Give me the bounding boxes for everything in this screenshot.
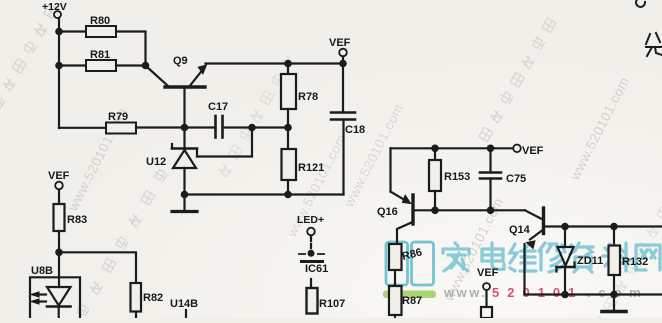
wire R80 left lead [59, 30, 86, 32]
node R132 bottom [610, 291, 618, 299]
svg-text:R81: R81 [90, 49, 110, 61]
glyph xiu [539, 243, 565, 272]
wire to R82 [59, 252, 136, 283]
partial glyph top-right 2 [646, 33, 662, 56]
svg-text:U8B: U8B [31, 265, 53, 277]
wire base row: rail corner to R79 [59, 127, 106, 129]
resistor R87 [389, 286, 422, 318]
svg-text:C18: C18 [345, 124, 365, 136]
zener diode U12 [146, 128, 197, 195]
node R78/R121/C17 [284, 124, 292, 132]
connector plate IC61 [302, 262, 329, 276]
node R80/R81 join [142, 62, 150, 70]
watermark www line left [65, 105, 130, 214]
node ZD11 bottom [561, 291, 569, 299]
logo url text [443, 285, 649, 300]
watermark www line center-low [284, 131, 349, 240]
watermark CJK line lower-left [74, 168, 167, 317]
VEF terminal right [513, 145, 543, 158]
optocoupler U8B [30, 265, 80, 318]
resistor R132 [609, 227, 649, 295]
wire bottom row to C18 [185, 193, 344, 195]
svg-text:R153: R153 [444, 171, 470, 183]
node R121 bottom [284, 191, 292, 199]
node C75 top [487, 145, 495, 153]
logo big CJK text [443, 243, 660, 272]
VEF terminal bottom-center [477, 267, 499, 307]
node U12 anode [181, 191, 189, 199]
wire R81 left lead [59, 64, 86, 66]
svg-text:U14B: U14B [170, 298, 198, 310]
svg-text:R107: R107 [319, 298, 345, 310]
svg-text:VEF: VEF [329, 37, 351, 49]
wire R81 right lead [116, 64, 146, 66]
node R153 top [431, 145, 439, 153]
resistor R80 [86, 26, 116, 37]
svg-text:520101: 520101 [492, 285, 583, 300]
zener diode ZD11 [557, 227, 604, 295]
svg-text:R132: R132 [622, 256, 648, 268]
wire emitter rail bottom right [525, 293, 662, 295]
watermark CJK line right-top [477, 17, 556, 142]
logo green underline bar [383, 291, 436, 299]
watermark CJK line bottom-right [591, 206, 662, 323]
svg-text:R79: R79 [108, 111, 128, 123]
svg-text:Q16: Q16 [377, 206, 398, 218]
partial glyph top-right 1 [636, 0, 645, 7]
glyph liao [603, 243, 630, 271]
ground right [602, 295, 626, 312]
svg-text:.com: .com [587, 285, 649, 300]
LED inside U8B [47, 252, 71, 318]
transistor Q16 [377, 192, 525, 244]
svg-text:R82: R82 [143, 292, 163, 304]
capacitor C18 [331, 64, 365, 195]
wire +12V rail vertical [58, 18, 60, 128]
resistor R107 [307, 279, 346, 314]
wire R79 to C17 [136, 126, 216, 128]
svg-text:C75: C75 [506, 173, 526, 185]
ground U12 [172, 195, 197, 212]
svg-text:VEF: VEF [522, 145, 544, 157]
wire zener bend feedback loop [197, 128, 252, 157]
glyph zi [570, 243, 593, 272]
wire R80 right lead down to R81 node [116, 32, 146, 66]
svg-text:R80: R80 [90, 15, 110, 27]
node VEF drop [339, 60, 347, 68]
svg-text:IC61: IC61 [305, 263, 328, 275]
node R78 top [284, 60, 292, 68]
wire Q16 emitter riser [389, 148, 391, 191]
logo book icon right page [412, 242, 434, 285]
glyph dian [482, 243, 504, 269]
svg-text:R83: R83 [67, 214, 87, 226]
IC U14B lead [170, 298, 198, 318]
node LED+ dashed join [308, 250, 315, 257]
logo 520101 site mark [383, 242, 660, 300]
watermark www line right-bottom [441, 195, 506, 304]
svg-text:R121: R121 [298, 162, 324, 174]
logo book icon left page [386, 242, 408, 285]
node Q9 base join [181, 124, 189, 132]
VEF terminal left [48, 170, 70, 204]
node R132 top [610, 223, 618, 231]
svg-text:Q14: Q14 [509, 224, 531, 236]
capacitor C75 [480, 148, 526, 210]
node C75 bottom [487, 207, 495, 215]
svg-text:+12V: +12V [42, 1, 67, 13]
resistor R78 [281, 64, 318, 128]
capacitor C17 [208, 101, 228, 138]
svg-text:U12: U12 [146, 156, 166, 168]
svg-text:LED+: LED+ [297, 214, 324, 226]
wire VEF right rail [391, 147, 514, 149]
resistor R83 [54, 204, 88, 252]
svg-text:VEF: VEF [477, 267, 499, 279]
glyph wang [636, 245, 660, 270]
node zener feedback join [248, 124, 256, 132]
LED emission arrows [31, 292, 46, 304]
node R83 bottom [55, 249, 63, 257]
resistor R121 [282, 128, 325, 195]
VEF terminal top [329, 37, 351, 64]
node R153 bottom [431, 207, 439, 215]
svg-text:R87: R87 [402, 295, 422, 307]
svg-text:R78: R78 [298, 91, 318, 103]
svg-text:C17: C17 [208, 101, 228, 113]
node at R80 tap [55, 28, 63, 36]
node at R81 tap [55, 62, 63, 70]
svg-text:www.: www. [443, 285, 487, 300]
resistor R153 [429, 148, 470, 210]
wire Q9 emitter to VEF rail [206, 62, 344, 64]
resistor R81 [86, 60, 116, 71]
resistor R79 [106, 123, 136, 134]
+12V terminal [54, 11, 61, 18]
resistor R82 [131, 283, 164, 318]
resistor R below VEF [481, 307, 492, 318]
svg-text:Q9: Q9 [173, 55, 188, 67]
node ZD11 top [561, 223, 569, 231]
svg-text:ZD11: ZD11 [577, 255, 603, 267]
LED+ terminal [297, 214, 324, 251]
watermark www line center-top [341, 101, 406, 210]
watermark www line far-right [567, 74, 632, 183]
dashed taps either side [299, 253, 324, 255]
transistor Q14 [509, 208, 662, 295]
transistor Q9 [147, 55, 207, 128]
watermark CJK line center [216, 53, 295, 178]
svg-text:VEF: VEF [48, 170, 70, 182]
glyph wei [510, 244, 536, 271]
resistor R86 [389, 244, 423, 286]
glyph jia [443, 243, 469, 271]
wire C17 to R78 node [223, 126, 289, 128]
watermark CJK line left-top [0, 3, 58, 128]
